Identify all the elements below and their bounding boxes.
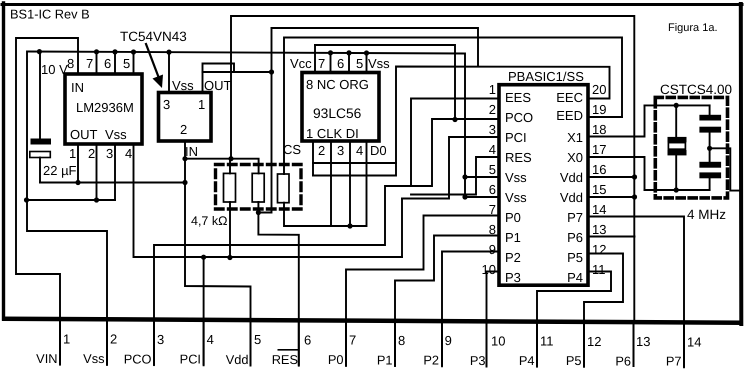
wire R2 bottom lead to RES connector xyxy=(258,202,298,366)
wire R3 bottom lead xyxy=(284,141,367,226)
svg-text:2: 2 xyxy=(180,122,187,137)
junction Vdd riser / U4 pin16 xyxy=(632,174,637,179)
svg-text:16: 16 xyxy=(592,162,606,177)
svg-text:Vdd: Vdd xyxy=(560,170,583,185)
wire U1 pin2 lead xyxy=(96,144,98,200)
svg-text:OUT: OUT xyxy=(204,78,232,93)
svg-text:EEC: EEC xyxy=(556,90,583,105)
wire U4 pin11 P4 xyxy=(537,272,611,367)
svg-text:D0: D0 xyxy=(370,143,387,158)
svg-text:4,7 kΩ: 4,7 kΩ xyxy=(191,214,227,228)
svg-text:2: 2 xyxy=(489,102,496,117)
wire U4 pin16 Vdd stub xyxy=(588,176,635,178)
regulator U1 LM2936M xyxy=(65,74,142,144)
svg-text:P3: P3 xyxy=(505,270,521,285)
U1 top pin numbers 8 7 6 5 xyxy=(67,56,130,71)
svg-text:P2: P2 xyxy=(505,250,521,265)
junction Vdd riser / U4 pin15 xyxy=(632,194,637,199)
svg-text:8 NC ORG: 8 NC ORG xyxy=(306,77,369,92)
svg-text:PCI: PCI xyxy=(505,130,527,145)
junction Vss bus / U4 pin6 xyxy=(462,194,467,199)
svg-text:14: 14 xyxy=(687,335,701,350)
connector pin 1 VIN lead xyxy=(59,321,61,365)
svg-text:4: 4 xyxy=(207,332,214,347)
wire U4 pin3 PCI staircase xyxy=(402,137,499,199)
svg-text:11: 11 xyxy=(592,262,606,277)
svg-text:P5: P5 xyxy=(566,353,582,368)
svg-text:CSTCS4.00: CSTCS4.00 xyxy=(660,82,732,97)
svg-text:12: 12 xyxy=(587,334,601,349)
wire U3 CS lead xyxy=(312,141,314,176)
connector pin 3 PCO lead xyxy=(153,321,155,365)
svg-text:Vss: Vss xyxy=(505,190,527,205)
svg-text:93LC56: 93LC56 xyxy=(313,106,362,121)
resistor network dashed box xyxy=(216,165,302,210)
U4 right pin names xyxy=(556,90,583,285)
OUT label notch xyxy=(203,64,235,73)
wire crystal bottom lead xyxy=(675,155,677,190)
connector pin 6 RES lead xyxy=(298,321,300,366)
wire top EEC link xyxy=(272,28,479,67)
U4 left pin names xyxy=(505,90,533,285)
junction U1 pin1 / h1 xyxy=(75,180,80,185)
svg-text:P5: P5 xyxy=(567,250,583,265)
svg-text:P6: P6 xyxy=(567,230,583,245)
junction U3 pin5 / Vss bus xyxy=(364,50,369,55)
svg-text:7: 7 xyxy=(349,333,356,348)
svg-text:RES: RES xyxy=(505,150,532,165)
svg-text:Vcc: Vcc xyxy=(290,56,312,71)
svg-text:RES: RES xyxy=(272,352,298,367)
wire U1 pin6 lead xyxy=(114,52,116,74)
U1 bottom pin numbers 1 2 3 4 xyxy=(69,146,132,161)
connector pin 14 P7 lead xyxy=(683,321,685,367)
wire U1 pin4 lead to Vss row xyxy=(134,144,403,257)
svg-text:P3: P3 xyxy=(470,353,486,368)
wire U4 pin12 P5 xyxy=(584,254,623,367)
svg-text:8: 8 xyxy=(398,333,405,348)
svg-text:7: 7 xyxy=(318,56,325,71)
svg-text:4: 4 xyxy=(489,142,496,157)
svg-text:TC54VN43: TC54VN43 xyxy=(120,29,187,44)
capacitor C1 22uF xyxy=(31,139,52,145)
junction R1 bottom / Vss row xyxy=(227,255,232,260)
svg-text:LM2936M: LM2936M xyxy=(76,100,134,115)
svg-text:Vss: Vss xyxy=(83,351,104,366)
svg-text:VIN: VIN xyxy=(36,351,57,366)
wire h2 Vss out xyxy=(27,199,116,201)
svg-text:Vss: Vss xyxy=(105,127,127,142)
svg-text:6: 6 xyxy=(304,333,311,348)
wire U4 pin8 P1 xyxy=(395,236,499,367)
microcontroller U4 PBASIC1/SS xyxy=(499,85,588,286)
svg-text:P1: P1 xyxy=(505,230,521,245)
svg-text:1: 1 xyxy=(69,146,76,161)
svg-text:PBASIC1/SS: PBASIC1/SS xyxy=(508,69,584,84)
wire PCO connector drop xyxy=(153,321,155,365)
wire resonator top rail xyxy=(645,104,710,106)
junction R2 bottom / RES link xyxy=(256,210,261,215)
svg-text:15: 15 xyxy=(592,182,606,197)
junction U3 pin7 / Vss bus xyxy=(328,50,333,55)
svg-text:10: 10 xyxy=(482,262,496,277)
wire U4 pin4 RES xyxy=(411,157,499,195)
svg-text:13: 13 xyxy=(636,334,650,349)
svg-text:P7: P7 xyxy=(666,354,682,369)
junction Vdd riser / R1 top xyxy=(228,156,233,161)
wire U4 pin6 Vss stub xyxy=(465,196,499,198)
wire U4 pin10 P3 xyxy=(487,272,500,367)
U3 top labels Vcc 7 6 5 Vss xyxy=(290,56,390,71)
wire U3 label cell line xyxy=(313,162,396,164)
wire U1 pin5 lead xyxy=(133,52,135,74)
svg-text:4: 4 xyxy=(125,146,132,161)
frame bottom edge xyxy=(2,317,743,326)
svg-text:Vss: Vss xyxy=(505,170,527,185)
svg-text:BS1-IC Rev B: BS1-IC Rev B xyxy=(10,7,90,22)
wire U3 pin7 lead xyxy=(330,53,332,73)
connector pin 2 Vss lead xyxy=(106,321,108,365)
wire Vss bus to bottom connector xyxy=(27,52,107,365)
junction U1 pin5 / Vss bus xyxy=(131,49,136,54)
svg-text:P2: P2 xyxy=(423,353,439,368)
svg-text:X1: X1 xyxy=(567,130,583,145)
junction Vss bus / U4 pin5 xyxy=(462,174,467,179)
svg-text:20: 20 xyxy=(592,82,606,97)
svg-text:19: 19 xyxy=(592,102,606,117)
svg-text:10: 10 xyxy=(491,334,505,349)
wire U1 pin3 lead xyxy=(114,144,116,200)
wire R1 bottom lead xyxy=(229,202,231,258)
junction U2 IN / h1 xyxy=(182,180,187,185)
svg-text:Vss: Vss xyxy=(368,56,390,71)
svg-text:Vss: Vss xyxy=(172,78,194,93)
svg-text:17: 17 xyxy=(592,142,606,157)
junction U1 pin2 / h2 xyxy=(94,197,99,202)
svg-text:X0: X0 xyxy=(567,150,583,165)
svg-text:P0: P0 xyxy=(328,352,344,367)
junction U3 DI / EED row xyxy=(347,223,352,228)
wire crystal top lead xyxy=(675,105,677,137)
svg-text:9: 9 xyxy=(445,333,452,348)
wire R3 top lead EED riser xyxy=(284,38,622,175)
svg-text:3: 3 xyxy=(489,122,496,137)
junction crystal top node xyxy=(674,103,679,108)
connector pin 8 P1 lead xyxy=(394,321,396,366)
crystal Y1 element xyxy=(668,137,687,156)
wire U4 pin5 Vss stub xyxy=(465,176,499,178)
U3 bottom labels CS 2 3 4 D0 xyxy=(283,142,387,158)
junction PCI pin / Vss row xyxy=(201,255,206,260)
svg-text:EES: EES xyxy=(505,90,531,105)
svg-text:5: 5 xyxy=(254,332,261,347)
wire U3 Vcc to PCO wire xyxy=(315,45,455,120)
wire EED stub pin19 xyxy=(588,116,622,118)
wire U4 pin17 X0 xyxy=(588,157,645,190)
connector pin numbers xyxy=(63,332,701,350)
svg-text:22 µF: 22 µF xyxy=(43,163,77,178)
junction U2 OUT / RES column xyxy=(269,69,274,74)
svg-text:CS: CS xyxy=(283,142,301,157)
svg-text:12: 12 xyxy=(592,242,606,257)
svg-text:3: 3 xyxy=(106,146,113,161)
svg-text:6: 6 xyxy=(104,56,111,71)
svg-text:10 V: 10 V xyxy=(41,62,68,77)
wire h1 cap to Vdd xyxy=(40,182,185,184)
wire U3 pin8 Vcc lead xyxy=(314,45,316,73)
wire U4 pin1 EES xyxy=(411,99,499,187)
wire VIN net xyxy=(16,38,78,365)
wire PCI riser xyxy=(401,199,403,258)
wire U3 CLK lead xyxy=(330,141,332,226)
svg-text:4: 4 xyxy=(356,143,363,158)
svg-text:14: 14 xyxy=(592,202,606,217)
wire U3 DI lead xyxy=(349,141,351,226)
resistor R2 xyxy=(252,173,264,202)
svg-text:IN: IN xyxy=(71,80,84,95)
svg-text:P4: P4 xyxy=(519,353,535,368)
svg-text:PCO: PCO xyxy=(505,110,533,125)
wire U2 OUT to RES column xyxy=(203,72,272,93)
svg-text:5: 5 xyxy=(489,162,496,177)
svg-text:1: 1 xyxy=(489,82,496,97)
svg-text:5: 5 xyxy=(356,56,363,71)
svg-text:Vdd: Vdd xyxy=(560,190,583,205)
svg-text:PCI: PCI xyxy=(180,352,201,367)
connector pin 7 P0 lead xyxy=(345,321,347,366)
svg-text:1: 1 xyxy=(198,97,205,112)
svg-text:18: 18 xyxy=(592,122,606,137)
junction U3 pin6 / Vss bus xyxy=(346,50,351,55)
wire EEC net xyxy=(313,67,610,176)
svg-text:8: 8 xyxy=(67,56,74,71)
junction crystal bottom node xyxy=(674,187,679,192)
connector pin 5 Vdd lead xyxy=(250,321,252,366)
voltage detector U2 TC54VN43 xyxy=(159,93,212,142)
wire U4 pin15 Vdd stub xyxy=(588,196,635,198)
wire Vdd riser to top xyxy=(231,16,634,322)
bottom connector pins xyxy=(60,321,684,367)
junction U2 pin3 / Vss bus xyxy=(166,50,171,55)
svg-text:7: 7 xyxy=(86,56,93,71)
wire U4 pin18 X1 xyxy=(588,105,645,136)
svg-text:Figura 1a.: Figura 1a. xyxy=(668,22,718,34)
svg-text:11: 11 xyxy=(540,334,554,349)
junction U1 pin6 / Vss bus xyxy=(112,49,117,54)
svg-text:3: 3 xyxy=(337,143,344,158)
svg-text:5: 5 xyxy=(123,56,130,71)
svg-text:P1: P1 xyxy=(377,353,393,368)
wire resonator bottom rail xyxy=(645,189,710,191)
junction U1 pin7 / Vss bus xyxy=(94,49,99,54)
junction C1 top / Vss bus xyxy=(37,49,42,54)
wire Vdd horizontal xyxy=(185,159,259,174)
svg-text:2: 2 xyxy=(88,146,95,161)
junction Vss riser / h2 xyxy=(24,197,29,202)
resistor R3 xyxy=(278,174,290,203)
svg-text:Vdd: Vdd xyxy=(226,352,249,367)
connector pin 9 P2 lead xyxy=(441,321,443,366)
svg-text:OUT: OUT xyxy=(70,127,98,142)
wire U1 pin7 lead xyxy=(96,52,98,74)
wire U4 pin2 PCO staircase xyxy=(154,119,499,321)
wire U4 pin13 P6 xyxy=(588,236,635,238)
connector pin 12 P5 lead xyxy=(583,321,585,367)
resonator X1 CSTCS4.00 dashed box xyxy=(655,97,727,197)
wire RES column xyxy=(258,28,271,213)
wire U4 pin7 P0 xyxy=(346,216,499,366)
resistor R1 xyxy=(224,173,236,202)
wire PCI connector drop xyxy=(203,257,205,365)
svg-text:PCO: PCO xyxy=(124,352,152,367)
svg-text:6: 6 xyxy=(337,56,344,71)
connector pin 13 P6 lead xyxy=(633,321,635,367)
connector pin 4 PCI lead xyxy=(203,321,205,365)
EEPROM U3 93LC56 xyxy=(302,73,379,142)
svg-text:9: 9 xyxy=(489,242,496,257)
C1 bottom lead xyxy=(39,158,41,183)
wire U3 pin5 lead xyxy=(366,53,368,73)
wire R1 top lead xyxy=(229,159,231,174)
wire U3 pin6 lead xyxy=(348,53,350,73)
svg-text:P6: P6 xyxy=(615,354,631,369)
svg-text:1 CLK DI: 1 CLK DI xyxy=(306,126,359,141)
wire U4 pin14 P7 xyxy=(588,217,684,368)
wire U4 pin9 P2 xyxy=(442,252,499,367)
wire U2 IN down xyxy=(185,141,251,366)
junction resonator center tap xyxy=(707,146,712,151)
svg-text:1: 1 xyxy=(63,332,70,347)
svg-text:13: 13 xyxy=(592,222,606,237)
connector pin 10 P3 lead xyxy=(486,321,488,367)
wire Vss bus xyxy=(28,52,465,198)
connector pin names xyxy=(36,351,681,369)
svg-text:P4: P4 xyxy=(567,270,583,285)
wire resonator center tap xyxy=(710,148,741,190)
U4 left pin numbers 1-10 xyxy=(482,82,496,277)
RES overline xyxy=(278,349,299,351)
svg-text:IN: IN xyxy=(185,144,198,159)
svg-text:P7: P7 xyxy=(567,210,583,225)
wire U1 pin1 lead xyxy=(77,144,79,183)
svg-text:EED: EED xyxy=(556,108,583,123)
svg-text:2: 2 xyxy=(110,332,117,347)
svg-text:P0: P0 xyxy=(505,210,521,225)
C1 top lead xyxy=(39,52,41,139)
connector pin 11 P4 lead xyxy=(536,321,538,367)
U4 right pin numbers 20-11 xyxy=(592,82,606,277)
svg-text:4 MHz: 4 MHz xyxy=(687,207,726,222)
junction U3 Vcc / PCO wire xyxy=(452,117,457,122)
svg-text:6: 6 xyxy=(489,182,496,197)
wire U2 pin3 lead xyxy=(168,52,170,92)
junction U2 IN / Vdd row xyxy=(182,156,187,161)
svg-text:3: 3 xyxy=(157,332,164,347)
svg-text:3: 3 xyxy=(163,97,170,112)
svg-text:2: 2 xyxy=(318,143,325,158)
capacitor C2 top xyxy=(699,105,721,148)
capacitor C3 bottom xyxy=(699,148,721,190)
